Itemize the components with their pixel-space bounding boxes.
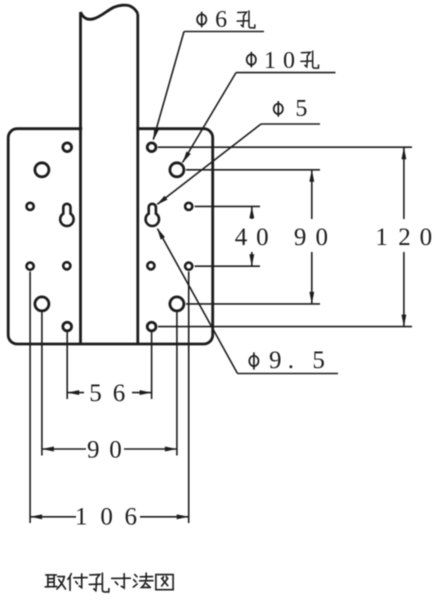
svg-text:0: 0 (316, 224, 329, 251)
svg-text:.: . (288, 347, 294, 374)
svg-text:6: 6 (215, 7, 227, 33)
svg-text:0: 0 (283, 48, 295, 74)
svg-text:0: 0 (420, 224, 433, 251)
svg-text:9: 9 (294, 224, 307, 251)
svg-text:5: 5 (89, 380, 102, 407)
svg-text:9: 9 (87, 436, 100, 463)
svg-text:1: 1 (75, 503, 88, 530)
svg-text:4: 4 (235, 224, 248, 251)
svg-text:0: 0 (256, 224, 269, 251)
svg-text:1: 1 (264, 48, 276, 74)
svg-text:6: 6 (125, 503, 138, 530)
svg-text:5: 5 (312, 347, 325, 374)
svg-text:1: 1 (375, 224, 388, 251)
svg-text:2: 2 (398, 224, 411, 251)
svg-text:9: 9 (269, 347, 282, 374)
svg-text:0: 0 (109, 436, 122, 463)
svg-text:5: 5 (295, 96, 307, 122)
svg-text:0: 0 (100, 503, 113, 530)
svg-text:6: 6 (113, 380, 126, 407)
